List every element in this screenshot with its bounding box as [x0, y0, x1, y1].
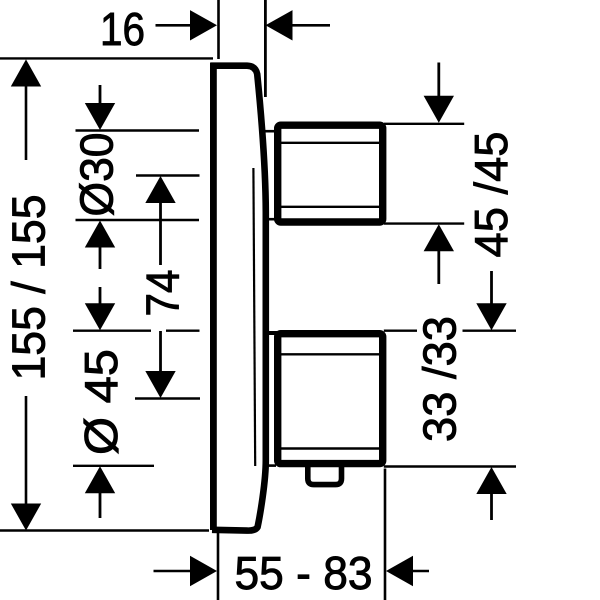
O45 bottom reference line: [73, 465, 154, 467]
O30 label: [71, 133, 123, 217]
45/45 dimension arrows: [424, 63, 454, 285]
74 top reference line: [136, 174, 200, 176]
dimension 55-83 label: [235, 547, 373, 599]
74 dimension line and arrows: [145, 176, 175, 398]
svg-text:33 /33: 33 /33: [414, 316, 466, 442]
155 bottom extension line: [0, 529, 209, 531]
33/33 top reference line: [384, 330, 516, 332]
bottom knob stem upper line: [263, 331, 278, 335]
top knob inner upper line: [281, 142, 380, 144]
svg-text:74: 74: [137, 270, 189, 317]
escutcheon plate inner contour line: [253, 168, 255, 466]
33/33 dimension arrows: [476, 271, 506, 520]
45/45 top reference line: [384, 123, 464, 125]
bottom knob safety tab: [308, 466, 342, 485]
svg-text:45 /45: 45 /45: [465, 132, 517, 258]
top knob outline: [278, 125, 383, 222]
svg-text:16: 16: [100, 3, 145, 55]
45/45 bottom reference line: [384, 222, 464, 224]
plate front extension line (16 ref): [264, 0, 267, 97]
33/33 label: [414, 316, 466, 442]
O30 dimension arrows: [85, 85, 115, 269]
O45 label: [75, 349, 127, 455]
dimension 16 right arrow: [266, 10, 331, 40]
svg-text:Ø30: Ø30: [71, 133, 123, 217]
top knob stem upper line: [263, 130, 276, 133]
33/33 bottom reference line: [384, 465, 516, 467]
top knob inner lower line: [281, 206, 380, 208]
O45 dimension arrows: [85, 287, 115, 518]
bottom knob inner upper line: [281, 353, 380, 355]
top knob stem lower line: [263, 218, 276, 221]
wall line bottom segment: [217, 531, 220, 600]
155 top extension line: [0, 57, 213, 59]
74 label: [137, 270, 189, 317]
dimension 16 label: [100, 3, 145, 55]
escutcheon plate outline top front bottom: [211, 66, 266, 531]
dimension 155/155 line and arrows: [11, 59, 41, 530]
74 bottom reference line: [135, 397, 200, 399]
bottom knob outline: [278, 334, 383, 464]
svg-text:155 / 155: 155 / 155: [3, 195, 55, 381]
O30 bottom reference line: [76, 219, 200, 221]
45/45 label: [465, 132, 517, 258]
55-83 right extension line: [384, 469, 387, 600]
dimension 55-83 left arrow: [154, 556, 218, 586]
svg-text:55 - 83: 55 - 83: [235, 547, 373, 599]
dimension 16 left arrow: [156, 10, 218, 40]
dimension 55-83 right arrow: [386, 556, 429, 586]
wall line top segment: [217, 0, 220, 59]
dimension 155/155 label: [3, 195, 55, 381]
O45 top reference line: [73, 330, 200, 332]
O30 top reference line: [76, 129, 200, 131]
bottom knob stem lower line: [263, 464, 277, 467]
escutcheon plate left edge: [210, 63, 217, 531]
svg-text:Ø 45: Ø 45: [75, 349, 127, 455]
bottom knob inner lower line: [281, 447, 380, 449]
